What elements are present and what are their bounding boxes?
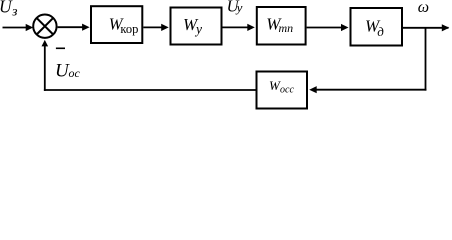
svg-text:д: д (377, 24, 384, 39)
svg-text:ω: ω (418, 0, 429, 16)
svg-text:з: з (11, 5, 18, 20)
svg-text:у: у (235, 0, 243, 15)
svg-text:кор: кор (120, 22, 138, 36)
svg-text:тп: тп (279, 21, 294, 35)
svg-text:ос: ос (69, 66, 81, 80)
svg-text:у: у (194, 22, 202, 37)
svg-text:осс: осс (280, 85, 294, 96)
